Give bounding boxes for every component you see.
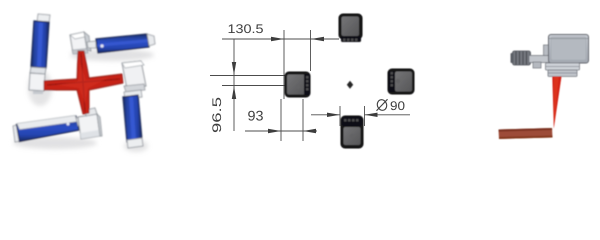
bottom module: blue cylinder body [17,116,80,142]
star arm ridge horizontal [47,79,120,85]
text O90 [376,98,388,111]
brown board [499,128,553,139]
arrow left-pointing at bottom square right [365,113,378,117]
square module left [285,72,310,97]
top module: white logo dot [100,44,103,47]
arrow 130.5 right-pointing at left ext [271,37,284,41]
lens mount stack [546,63,580,70]
bottom module: logo [67,123,70,126]
ext line horizontal upper [210,75,285,77]
star bright center [56,62,110,104]
svg-text:130.5: 130.5 [228,22,264,36]
shadow under left module [28,70,52,106]
center cross mark [347,81,353,89]
top module: head (white cube) [70,32,87,53]
right module: bottom cap [127,138,143,148]
left module: top cap [37,14,50,23]
arrow up on 96.5 [232,86,236,99]
left module: head (white cube) [30,67,46,74]
arrow right-pointing at bottom square left [327,113,340,117]
knob / motor cylinder [513,51,531,65]
arrow 93 right-pointing [268,129,281,133]
star arm ridge vertical [81,53,85,112]
dim line 93 [245,130,317,132]
dim line 130.5 [222,38,339,40]
square module bottom [341,116,363,148]
main laser box [549,35,589,64]
svg-text:90: 90 [390,99,405,113]
bottom module: head (white cube) [78,114,100,139]
bottom module: silver top face [17,116,78,130]
red cross star (4 laser fan beams crossing) [44,51,123,114]
dim line bottom square right + leader O90 [365,114,411,116]
bracket arm [529,56,550,63]
arrow 93 left-pointing [303,129,316,133]
ext line left square right edge upper [310,30,312,71]
arrow down on 96.5 [232,62,236,75]
right module: white band [124,90,142,99]
arrow 130.5 left-pointing at right ext [311,37,324,41]
ext line lower for 93 left [280,99,282,141]
red laser fan beam [552,77,561,129]
bottom module: left end cap [13,124,21,142]
right module: head (white cube) [122,61,146,89]
square module top [339,14,362,42]
square module right [388,69,414,94]
shadow under right module [124,140,148,152]
dim line 96.5 vertical [233,39,235,131]
right module: blue body [123,95,142,142]
svg-text:96.5: 96.5 [210,97,224,133]
bottom module: neck [76,116,87,126]
ext line horizontal center [222,85,285,87]
top module: blue cylinder body [96,34,149,53]
ext line bottom square right edge [364,106,366,126]
dim line bottom square left [311,114,340,116]
laser module squares (top view) [285,14,414,148]
left module: body highlight [37,23,43,66]
ext line left square left edge [283,30,285,99]
ext line lower for 93 right [302,99,304,141]
top module: right end cap [147,34,155,46]
shadow under top module [70,49,154,61]
bracket post [544,45,550,62]
ext line bottom square left edge [339,106,341,126]
svg-text:93: 93 [248,108,264,124]
shadow under bottom module [13,137,97,149]
left module: blue body [31,21,49,68]
top module: neck [87,41,96,48]
